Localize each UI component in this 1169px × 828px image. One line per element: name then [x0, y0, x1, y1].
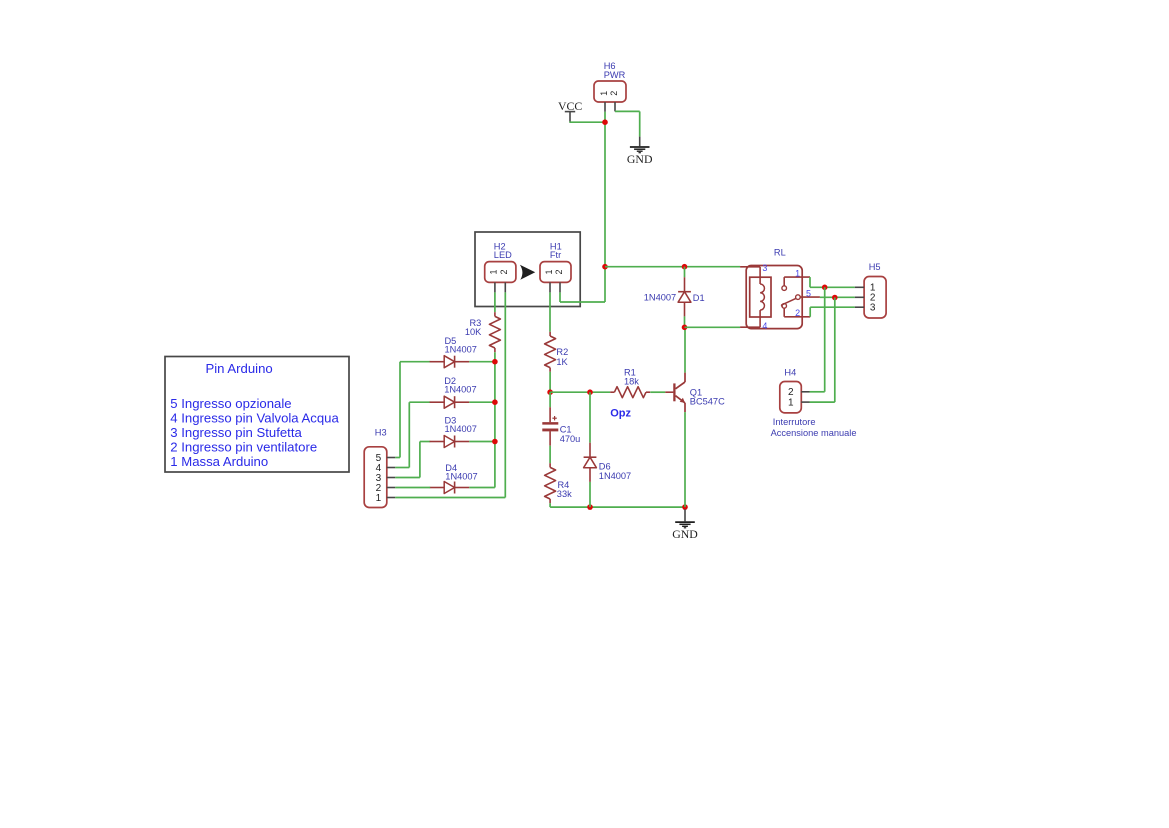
- svg-text:Opz: Opz: [610, 408, 631, 420]
- svg-text:470u: 470u: [560, 434, 581, 444]
- svg-text:H4: H4: [784, 367, 796, 377]
- svg-text:Accensione manuale: Accensione manuale: [771, 428, 857, 438]
- svg-text:1: 1: [788, 398, 794, 409]
- svg-text:3: 3: [870, 303, 876, 314]
- svg-text:2: 2: [554, 269, 564, 274]
- svg-text:RL: RL: [774, 247, 786, 257]
- svg-text:1N4007: 1N4007: [444, 385, 476, 395]
- svg-text:1: 1: [376, 493, 382, 504]
- svg-text:H3: H3: [375, 428, 387, 438]
- svg-text:BC547C: BC547C: [690, 396, 725, 406]
- svg-text:R2: R2: [556, 347, 568, 357]
- svg-text:1: 1: [489, 269, 499, 274]
- svg-text:2: 2: [609, 91, 619, 96]
- svg-text:1N4007: 1N4007: [445, 472, 477, 482]
- svg-text:2: 2: [795, 308, 800, 318]
- svg-text:Pin Arduino: Pin Arduino: [206, 361, 273, 376]
- svg-text:1N4007: 1N4007: [445, 345, 477, 355]
- svg-text:PWR: PWR: [604, 70, 626, 80]
- svg-text:D1: D1: [693, 293, 705, 303]
- svg-text:4: 4: [762, 321, 767, 331]
- svg-text:5 Ingresso opzionale: 5 Ingresso opzionale: [170, 396, 291, 411]
- svg-text:1K: 1K: [556, 357, 568, 367]
- svg-text:GND: GND: [627, 152, 653, 166]
- svg-text:4 Ingresso pin Valvola Acqua: 4 Ingresso pin Valvola Acqua: [170, 410, 339, 425]
- svg-text:18k: 18k: [624, 377, 639, 387]
- svg-text:2 Ingresso pin ventilatore: 2 Ingresso pin ventilatore: [170, 439, 317, 454]
- svg-text:H5: H5: [869, 262, 881, 272]
- svg-text:1N4007: 1N4007: [445, 424, 477, 434]
- svg-text:GND: GND: [672, 527, 698, 541]
- svg-text:1: 1: [544, 269, 554, 274]
- svg-text:2: 2: [499, 269, 509, 274]
- svg-text:3: 3: [762, 263, 767, 273]
- svg-text:5: 5: [806, 288, 811, 298]
- svg-text:1: 1: [795, 269, 800, 279]
- svg-text:Interrutore: Interrutore: [773, 417, 816, 427]
- svg-text:Ftr: Ftr: [550, 250, 561, 260]
- svg-text:1 Massa Arduino: 1 Massa Arduino: [170, 454, 268, 469]
- svg-text:1: 1: [599, 91, 609, 96]
- svg-text:LED: LED: [494, 250, 512, 260]
- svg-text:1N4007: 1N4007: [599, 471, 631, 481]
- svg-text:10K: 10K: [465, 327, 482, 337]
- svg-text:1N4007: 1N4007: [644, 292, 676, 302]
- svg-text:33k: 33k: [557, 489, 572, 499]
- svg-text:3 Ingresso pin Stufetta: 3 Ingresso pin Stufetta: [170, 425, 302, 440]
